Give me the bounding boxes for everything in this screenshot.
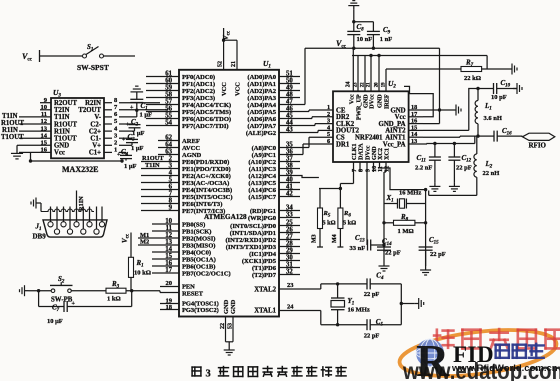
ground J1 shell	[31, 198, 41, 212]
svg-text:PB1(SCK): PB1(SCK)	[182, 228, 211, 235]
svg-text:1 μF: 1 μF	[131, 145, 144, 152]
svg-text:R1IN: R1IN	[54, 128, 70, 135]
U1 PG1 PG0 pins	[248, 204, 300, 222]
wire Y1 right bar	[400, 284, 415, 325]
node T1IN label	[2, 113, 18, 120]
wire W1 to PC jog	[300, 176, 319, 178]
svg-text:22 pF: 22 pF	[430, 251, 446, 258]
svg-text:3: 3	[206, 369, 211, 380]
svg-text:3.6 nH: 3.6 nH	[484, 115, 502, 122]
wire L2 bottom	[429, 177, 477, 195]
U1 GND pins 22 53	[220, 299, 237, 346]
svg-text:www.RfidWorld.com.cn: www.RfidWorld.com.cn	[451, 363, 558, 374]
svg-text:(RD)PG1: (RD)PG1	[250, 208, 276, 215]
svg-text:(AD5)PA5: (AD5)PA5	[247, 109, 276, 116]
capacitor C5x 22pF bottom	[364, 318, 402, 340]
ground U2 GND (right)	[452, 105, 461, 116]
svg-text:RESET: RESET	[182, 291, 204, 298]
svg-text:T2IN: T2IN	[54, 107, 70, 114]
wire J1 ground hop-over	[41, 209, 94, 212]
svg-text:(INT3/TXD1)PD3: (INT3/TXD1)PD3	[226, 244, 277, 251]
resistor R7 22k	[461, 59, 482, 83]
svg-text:PF3(ADC3): PF3(ADC3)	[182, 95, 215, 102]
svg-text:1 nF: 1 nF	[380, 36, 392, 43]
mcu U1 ATMEGA128 chip body	[179, 59, 279, 317]
switch S1 SW-SPST	[77, 43, 109, 72]
capacitor C16	[478, 127, 522, 142]
svg-text:PB2(MOSI): PB2(MOSI)	[182, 235, 215, 242]
wire PG2 to DOUT2	[300, 130, 333, 132]
svg-text:35: 35	[286, 141, 293, 148]
svg-text:(INT2/RXD1)PD2: (INT2/RXD1)PD2	[225, 237, 276, 244]
svg-text:13: 13	[411, 138, 417, 145]
svg-text:15: 15	[41, 140, 48, 147]
power Vcc supply label (top left)	[22, 50, 40, 63]
wire Vcc to S1	[40, 55, 83, 57]
svg-text:29: 29	[286, 247, 293, 254]
svg-text:22: 22	[220, 323, 226, 329]
svg-text:62: 62	[165, 135, 172, 142]
wire PC1 to DR1	[300, 144, 333, 155]
svg-text:(AD0)PA0: (AD0)PA0	[247, 74, 276, 81]
svg-text:1 kΩ: 1 kΩ	[107, 296, 121, 303]
svg-text:12: 12	[165, 232, 172, 239]
svg-text:61: 61	[165, 71, 172, 78]
svg-text:(ALE)PG2: (ALE)PG2	[246, 130, 276, 137]
svg-text:R1OUT: R1OUT	[54, 121, 78, 128]
svg-text:T1IN: T1IN	[54, 114, 70, 121]
wire CLK1 down	[339, 162, 354, 190]
wire PA7 to CLK2	[300, 124, 333, 126]
svg-text:16: 16	[165, 260, 172, 267]
U2 right pins 13-18	[379, 104, 423, 148]
svg-text:R2OUT: R2OUT	[54, 100, 78, 107]
svg-text:Vcc: Vcc	[349, 94, 356, 104]
svg-text:22 pF: 22 pF	[364, 333, 380, 340]
svg-text:GND: GND	[230, 299, 237, 314]
capacitor C13 33nF	[350, 234, 386, 252]
svg-text:40: 40	[286, 176, 293, 183]
svg-text:13: 13	[41, 125, 48, 132]
capacitor C10 10pF	[476, 79, 517, 101]
svg-text:57: 57	[165, 99, 172, 106]
svg-text:(A11)PC3: (A11)PC3	[249, 166, 277, 173]
svg-text:IREF: IREF	[384, 94, 391, 109]
svg-text:VCC: VCC	[235, 82, 242, 96]
svg-text:8: 8	[358, 169, 365, 172]
wire rail to PA4	[300, 48, 305, 104]
ground reset left	[20, 285, 29, 296]
svg-text:DATA: DATA	[358, 143, 365, 160]
svg-text:PF4(ADC4/TCK): PF4(ADC4/TCK)	[182, 102, 231, 109]
capacitor C15 22pF	[419, 236, 446, 266]
wire second rail	[352, 54, 487, 57]
svg-text:XTAL1: XTAL1	[254, 308, 276, 315]
wire PC0 to CS	[300, 137, 333, 147]
svg-text:(AD6)PA6: (AD6)PA6	[247, 116, 276, 123]
J1 label	[33, 223, 47, 241]
resistor R5 5k	[318, 189, 336, 229]
svg-text:3: 3	[169, 163, 173, 170]
svg-text:14: 14	[165, 246, 172, 253]
ground C15	[420, 266, 431, 275]
svg-text:C2+: C2+	[89, 128, 101, 135]
svg-text:GND: GND	[377, 94, 384, 108]
wire XC1 branch	[384, 162, 386, 252]
svg-text:1 μF: 1 μF	[124, 163, 137, 170]
svg-text:22 pF: 22 pF	[385, 250, 401, 257]
svg-text:11: 11	[41, 111, 47, 118]
crystal X1 16MHz	[384, 190, 426, 209]
U1 PEN RESET pins	[160, 280, 204, 297]
svg-text:45: 45	[286, 112, 293, 119]
svg-text:R1OUT: R1OUT	[142, 155, 164, 162]
U2 top pin labels	[346, 81, 391, 120]
svg-text:C1-: C1-	[90, 136, 101, 143]
svg-text:(INT1/SDA)PD1: (INT1/SDA)PD1	[230, 230, 276, 237]
svg-text:22 pF: 22 pF	[456, 165, 472, 172]
capacitor C8 10nF	[347, 22, 372, 49]
svg-text:37: 37	[286, 155, 293, 162]
wire U3 pin8	[119, 102, 160, 104]
capacitor C12 22pF	[448, 144, 471, 183]
svg-text:PWR_UP: PWR_UP	[356, 94, 363, 120]
svg-text:5 kΩ: 5 kΩ	[323, 220, 336, 227]
svg-text:XC1: XC1	[384, 148, 391, 160]
svg-text:DB9: DB9	[33, 233, 47, 241]
U3 left pins 9-16 stubs	[19, 97, 51, 154]
svg-text:22 pF: 22 pF	[364, 291, 380, 298]
svg-text:(T1)PD6: (T1)PD6	[252, 265, 277, 272]
svg-text:16 MHz: 16 MHz	[348, 307, 370, 314]
svg-text:13: 13	[165, 239, 172, 246]
svg-text:PF1(ADC1): PF1(ADC1)	[182, 81, 215, 88]
rf chip U2 NRF2401 body	[333, 79, 409, 162]
svg-text:27: 27	[286, 233, 293, 240]
svg-text:M3: M3	[312, 234, 318, 243]
wire from S1 right	[104, 55, 136, 57]
wire R1IN from J1	[77, 191, 86, 212]
wire W1 R5 R6 top	[319, 188, 340, 190]
svg-text:54: 54	[165, 120, 172, 127]
svg-text:R2IN: R2IN	[85, 100, 101, 107]
node R1IN label	[2, 127, 18, 134]
wire XC2 to right branch	[380, 162, 428, 266]
svg-text:XTAL2: XTAL2	[254, 286, 276, 293]
svg-text:23: 23	[287, 282, 294, 289]
wire IREF to R7	[386, 68, 461, 70]
ground C11	[429, 182, 440, 191]
svg-text:46: 46	[286, 105, 293, 112]
node M4	[332, 229, 343, 248]
svg-text:SW-SPST: SW-SPST	[77, 63, 109, 72]
svg-text:10 kΩ: 10 kΩ	[134, 270, 151, 277]
wire U3 Vcc loop	[19, 152, 124, 162]
node T1OUT label	[1, 134, 24, 141]
svg-text:2: 2	[169, 156, 173, 163]
svg-text:(INT0/SCL)PD0: (INT0/SCL)PD0	[230, 223, 277, 230]
ground C14	[379, 262, 390, 271]
svg-text:8: 8	[169, 198, 173, 205]
wire U3 pin7	[119, 109, 168, 111]
caption 图3 系统基本组成原理图	[192, 367, 346, 380]
svg-text:26: 26	[286, 226, 293, 233]
svg-text:24: 24	[287, 304, 294, 311]
svg-text:6: 6	[169, 184, 173, 191]
svg-text:M4: M4	[332, 234, 338, 243]
U1 port F pins PF0-PF7	[146, 71, 231, 130]
svg-text:Vcc_PA: Vcc_PA	[383, 141, 406, 148]
wire GND10 down	[373, 162, 375, 172]
svg-text:5 kΩ: 5 kΩ	[343, 220, 356, 227]
svg-text:1 MΩ: 1 MΩ	[398, 228, 414, 235]
wire R7 right	[482, 56, 508, 70]
svg-text:RFIO: RFIO	[529, 142, 547, 150]
wire VccPA rail	[423, 136, 475, 145]
svg-text:PE6(INT6/T3): PE6(INT6/T3)	[182, 201, 222, 208]
svg-text:49: 49	[286, 84, 293, 91]
svg-text:10: 10	[41, 104, 48, 111]
svg-text:PF7(ADC7/TDI): PF7(ADC7/TDI)	[182, 123, 229, 130]
svg-text:34: 34	[286, 204, 293, 211]
svg-text:16: 16	[41, 147, 48, 154]
svg-text:+: +	[126, 122, 130, 128]
node R1OUT to PE0	[142, 155, 164, 162]
capacitor C2 1uF	[119, 118, 145, 137]
J1 pin leads	[51, 207, 103, 230]
svg-text:9: 9	[169, 205, 173, 212]
inductor L1 3.6nH	[475, 89, 502, 137]
wire XTAL1 net	[320, 311, 322, 325]
svg-text:12: 12	[41, 118, 48, 125]
ground Y1	[415, 298, 424, 309]
svg-text:2.2 nF: 2.2 nF	[415, 165, 432, 172]
connector RFIO	[522, 133, 554, 149]
svg-text:28: 28	[286, 240, 293, 247]
svg-text:47: 47	[286, 98, 293, 105]
svg-text:(AD2)PA2: (AD2)PA2	[247, 88, 276, 95]
svg-text:PE4(INT4/OC3B): PE4(INT4/OC3B)	[182, 187, 232, 194]
wire PA6 to DR2	[300, 117, 333, 119]
svg-text:22 kΩ: 22 kΩ	[464, 75, 481, 82]
resistor R3 1k	[106, 280, 126, 303]
svg-text:44: 44	[286, 119, 293, 126]
svg-text:PE1(PDO/TXD0): PE1(PDO/TXD0)	[182, 166, 231, 173]
U1 VCC pins 52 21	[218, 28, 242, 96]
svg-text:VCC: VCC	[221, 82, 228, 96]
wire U2 GND pins to ground	[423, 48, 452, 123]
svg-text:T1OUT: T1OUT	[54, 136, 77, 143]
wire DVcc to C13	[366, 162, 369, 245]
svg-text:32: 32	[286, 268, 293, 275]
svg-text:NRF2401: NRF2401	[355, 135, 383, 142]
svg-text:PE3(AC-/OC3A): PE3(AC-/OC3A)	[182, 180, 229, 187]
capacitor C4 1uF	[117, 148, 137, 170]
svg-text:51: 51	[286, 70, 293, 77]
power Vcc rail label	[336, 39, 347, 50]
svg-text:C2-: C2-	[90, 121, 101, 128]
svg-text:T2OUT: T2OUT	[78, 107, 101, 114]
svg-text:T1IN: T1IN	[2, 113, 18, 120]
svg-text:PB5(OC1A): PB5(OC1A)	[182, 256, 216, 263]
svg-text:43: 43	[286, 126, 293, 133]
svg-text:(WR)PG0: (WR)PG0	[248, 215, 277, 222]
ground U1 GND	[224, 346, 235, 355]
power Vcc for R1	[121, 233, 131, 258]
svg-text:48: 48	[286, 91, 293, 98]
svg-text:63: 63	[165, 149, 172, 156]
svg-text:1 μF: 1 μF	[132, 130, 145, 137]
svg-text:PEN: PEN	[182, 284, 195, 291]
svg-text:25: 25	[286, 219, 293, 226]
svg-text:PE0(PD1/RXD0): PE0(PD1/RXD0)	[182, 159, 229, 166]
wire U3 GND pin	[17, 145, 19, 149]
wire R3 to RESET	[126, 291, 179, 293]
U1 port A pins PA0-PA7 PG2	[246, 70, 300, 137]
svg-text:(AD3)PA3: (AD3)PA3	[247, 95, 276, 102]
resistor R8 1M	[382, 213, 427, 235]
svg-text:T1OUT: T1OUT	[1, 134, 24, 141]
node M2 label	[138, 239, 152, 246]
svg-text:(A12)PC4: (A12)PC4	[248, 173, 276, 180]
svg-text:(AD4)PA4: (AD4)PA4	[247, 102, 276, 109]
node M3	[312, 229, 324, 248]
svg-text:(A8)PC0: (A8)PC0	[252, 145, 277, 152]
svg-text:PF6(ADC6/TDO): PF6(ADC6/TDO)	[182, 116, 231, 123]
svg-text:20: 20	[166, 280, 173, 287]
svg-text:56: 56	[165, 106, 172, 113]
wire Y1 bottom rail	[321, 323, 367, 326]
svg-text:AREF: AREF	[182, 138, 200, 145]
svg-text:4: 4	[169, 170, 173, 177]
svg-text:31: 31	[286, 261, 293, 268]
svg-text:GND: GND	[223, 299, 230, 314]
capacitor C11 2.2nF	[415, 144, 441, 183]
node M1 label	[138, 232, 152, 239]
svg-text:38: 38	[286, 162, 293, 169]
U1 AREF AVCC AGND pins	[158, 135, 202, 159]
svg-text:18: 18	[166, 304, 173, 311]
svg-text:(A10)PC2: (A10)PC2	[248, 159, 276, 166]
svg-text:PB0(SS): PB0(SS)	[182, 221, 205, 228]
svg-text:Vcc: Vcc	[54, 150, 65, 157]
svg-text:22 nH: 22 nH	[483, 170, 500, 177]
capacitor C14 22pF	[377, 238, 401, 263]
U1 port D pins PD0-PD7	[225, 219, 300, 278]
svg-text:33 nF: 33 nF	[350, 245, 366, 252]
U2 left pin labels 1-6	[327, 104, 360, 148]
wire U2 Vcc pin17	[404, 86, 433, 116]
ground U3 GND	[11, 149, 23, 159]
svg-text:PE7(INT7/IC3): PE7(INT7/IC3)	[182, 208, 225, 215]
inductor L2 22nH	[474, 136, 499, 177]
ground above C1	[130, 86, 143, 96]
watermark RFID logo	[397, 323, 560, 381]
node T1IN to PE1	[145, 162, 160, 169]
svg-text:53: 53	[228, 323, 234, 329]
ground C10	[513, 83, 522, 94]
svg-text:17: 17	[165, 267, 172, 274]
svg-text:16 MHz: 16 MHz	[399, 190, 421, 197]
U1 XTAL2 pin 23	[254, 282, 321, 293]
capacitor C4x 22pF top	[364, 272, 402, 299]
wire DATA down	[359, 162, 361, 172]
U1 port B pins PB0-PB7	[152, 218, 231, 277]
svg-text:GND: GND	[54, 143, 69, 150]
svg-text:42: 42	[286, 190, 293, 197]
svg-text:10 μF: 10 μF	[47, 318, 63, 325]
svg-text:PB7(OC2/OC1C): PB7(OC2/OC1C)	[182, 270, 231, 277]
wire XTAL2 net	[320, 284, 322, 289]
svg-text:58: 58	[165, 92, 172, 99]
ground R7	[508, 64, 517, 75]
svg-text:DR1: DR1	[336, 141, 350, 148]
svg-text:R1OUT: R1OUT	[1, 120, 25, 127]
svg-text:21: 21	[231, 61, 237, 67]
svg-text:PB3(MISO): PB3(MISO)	[182, 242, 215, 249]
wire Y1 top rail	[321, 282, 367, 285]
U1 port E pins PE0-PE7	[141, 156, 233, 215]
svg-text:39: 39	[286, 169, 293, 176]
svg-text:33: 33	[286, 211, 293, 218]
svg-text:PF2(ADC2): PF2(ADC2)	[182, 88, 215, 95]
svg-text:PF5(ADC5/TMS): PF5(ADC5/TMS)	[182, 109, 231, 116]
svg-text:R1IN: R1IN	[2, 127, 18, 134]
svg-text:PG3(TOSC2): PG3(TOSC2)	[182, 307, 219, 314]
U1 PG4 PG3 pins	[160, 297, 219, 314]
svg-text:(AD7)PA7: (AD7)PA7	[247, 123, 276, 130]
svg-text:36: 36	[286, 148, 293, 155]
svg-text:59: 59	[165, 85, 172, 92]
svg-text:V-: V-	[94, 114, 101, 121]
svg-text:7: 7	[169, 191, 173, 198]
svg-text:PB4(OC0): PB4(OC0)	[182, 249, 211, 256]
svg-text:11: 11	[166, 225, 173, 232]
svg-text:(A15)PC7: (A15)PC7	[248, 194, 276, 201]
svg-text:(XCK1)PD5: (XCK1)PD5	[242, 258, 277, 265]
svg-text:55: 55	[165, 113, 172, 120]
svg-text:V+: V+	[92, 143, 101, 150]
svg-text:41: 41	[286, 183, 293, 190]
svg-text:5: 5	[169, 177, 173, 184]
U3 right pins 1-8 stubs	[104, 97, 118, 154]
svg-text:10 pF: 10 pF	[491, 94, 507, 101]
U2 bottom pin labels	[351, 143, 391, 172]
svg-text:SW-PB: SW-PB	[51, 297, 73, 304]
op-amp U3 MAX232E chip body	[51, 88, 104, 174]
svg-text:10 nF: 10 nF	[357, 36, 373, 43]
resistor R1 10k	[129, 257, 151, 277]
svg-text:10: 10	[165, 218, 172, 225]
wire AINT2 to C10 node	[423, 89, 478, 131]
wire ground to S2	[29, 289, 52, 292]
svg-text:(A14)PC6: (A14)PC6	[248, 187, 276, 194]
ground C12	[449, 182, 460, 191]
svg-text:2: 2	[114, 140, 117, 147]
resistor R6 5k	[338, 189, 356, 229]
svg-text:30: 30	[286, 254, 293, 261]
svg-text:DVcc: DVcc	[369, 94, 376, 109]
svg-text:(A9)PC1: (A9)PC1	[252, 152, 276, 159]
svg-text:+: +	[122, 137, 126, 143]
svg-text:(AD1)PA1: (AD1)PA1	[247, 81, 276, 88]
svg-text:T1IN: T1IN	[145, 162, 160, 169]
capacitor C7 10uF	[39, 291, 132, 325]
capacitor C3 1uF	[119, 133, 144, 152]
svg-text:AVCC: AVCC	[182, 145, 200, 152]
capacitor C1 1uF	[119, 97, 152, 119]
svg-text:AGND: AGND	[182, 152, 202, 159]
